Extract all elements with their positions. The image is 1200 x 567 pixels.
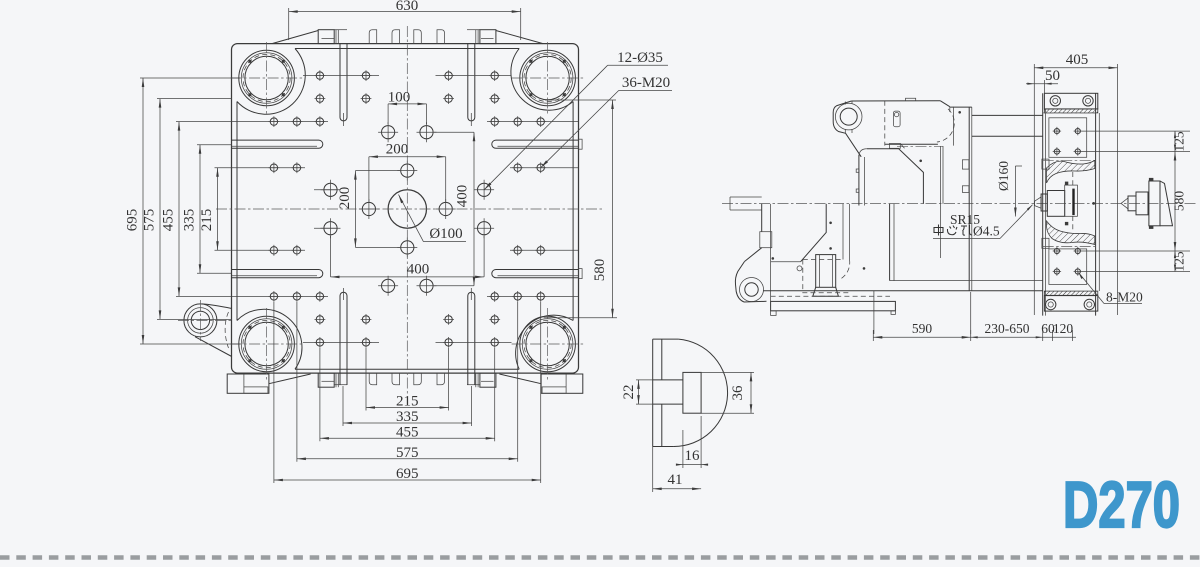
side hole extension stubs (314, 190, 483, 228)
36 M20 tapped holes (269, 70, 547, 348)
label Ø100 with leader (399, 195, 467, 243)
svg-text:335: 335 (396, 409, 419, 425)
svg-text:630: 630 (396, 0, 419, 14)
svg-text:695: 695 (125, 209, 141, 232)
side view machine axis centerline (722, 202, 1196, 205)
left vertical dimensions 695/575/455/335/215 (125, 76, 579, 344)
svg-text:695: 695 (396, 466, 419, 482)
svg-text:41: 41 (668, 472, 683, 488)
tie-bar hole bottom-right (512, 308, 584, 380)
detail dim 41 (653, 447, 701, 493)
model label D270 (1063, 468, 1180, 541)
tie bar upper (side view) (972, 115, 1043, 136)
inner recessed panel outline (237, 49, 577, 370)
label 12-Ø35 with leader (484, 50, 668, 190)
toggle link bars (856, 155, 864, 206)
platen front view outline (232, 44, 579, 374)
svg-text:575: 575 (396, 445, 419, 461)
inner dimension 200 vertical (337, 171, 400, 248)
svg-text:405: 405 (1066, 52, 1089, 68)
svg-text:200: 200 (386, 142, 409, 158)
svg-text:Ø100: Ø100 (429, 226, 462, 242)
svg-text:335: 335 (182, 209, 198, 232)
svg-text:D270: D270 (1063, 468, 1180, 541)
horizontal T-slot bars left (232, 140, 323, 278)
svg-text:580: 580 (592, 259, 608, 282)
svg-text:125: 125 (1172, 251, 1187, 272)
bottom dims 590 / 230-650 / 60 / 120 (873, 291, 1076, 341)
center hole Ø100 (388, 190, 426, 228)
carriage base plate (763, 281, 1043, 316)
12 Ø35 bolt holes (321, 122, 495, 296)
svg-text:455: 455 (396, 424, 419, 440)
platen bolt squares 8-M20 (1049, 118, 1087, 285)
svg-text:400: 400 (407, 262, 430, 278)
detail dim 22 (621, 380, 653, 404)
svg-text:215: 215 (199, 209, 215, 232)
tie-bar hole bottom-left (231, 308, 303, 380)
dims 125 / 580 / 125 right (1082, 131, 1190, 272)
moving platen slab (885, 101, 972, 291)
svg-text:12-Ø35: 12-Ø35 (617, 50, 663, 66)
svg-text:215: 215 (396, 394, 419, 410)
stationary platen side section (1042, 93, 1099, 315)
detail dim 16 (676, 416, 708, 468)
detail dim 36 (701, 372, 754, 413)
ejector housing block (797, 255, 850, 297)
inner dimension 400 horizontal (331, 236, 485, 278)
dim 405 (1034, 52, 1117, 315)
svg-text:455: 455 (161, 209, 177, 232)
bottom dashed separator line (0, 555, 1200, 560)
dim 50 (1026, 68, 1060, 93)
injection nozzle unit (1121, 178, 1173, 229)
inner dimension 200 horizontal (369, 142, 446, 203)
label Ø160 with leader (996, 161, 1022, 217)
svg-text:200: 200 (337, 187, 353, 210)
inner dimension 400 vertical (434, 132, 475, 286)
inner dimension 100 top (388, 90, 427, 125)
top toothed mounting strip (272, 30, 543, 44)
svg-text:400: 400 (455, 185, 471, 208)
tie-bar hole top-right (512, 42, 584, 114)
svg-text:100: 100 (388, 90, 411, 106)
svg-text:Ø4.5: Ø4.5 (973, 224, 1000, 239)
horizontal T-slot bars right (492, 139, 582, 278)
left cylinder tail (730, 197, 762, 210)
lower toggle lug boss (735, 262, 763, 303)
svg-text:590: 590 (912, 321, 933, 336)
svg-text:22: 22 (621, 385, 637, 400)
moving mold half upper section (851, 98, 954, 258)
right dimension 580 (544, 100, 617, 318)
svg-text:8-M20: 8-M20 (1106, 290, 1143, 305)
bottom toothed strip and feet (227, 373, 583, 393)
svg-text:120: 120 (1053, 321, 1074, 336)
tie-bar hole top-left (231, 42, 303, 114)
svg-text:580: 580 (1172, 191, 1187, 212)
platen hatched lobes (1047, 161, 1095, 245)
vertical T-slot bars bottom (340, 288, 475, 385)
vertical T-slot bars top (340, 44, 475, 126)
svg-text:36: 36 (730, 385, 746, 401)
T-slot detail view (653, 339, 728, 446)
svg-text:125: 125 (1172, 131, 1187, 152)
centerlines front view (216, 26, 604, 394)
upper toggle lug boss (833, 101, 862, 157)
svg-text:230-650: 230-650 (985, 321, 1030, 336)
svg-text:50: 50 (1045, 68, 1060, 84)
label 36-M20 with leader (541, 75, 672, 168)
svg-text:575: 575 (142, 209, 158, 232)
top dimension 630 (289, 0, 521, 40)
svg-text:Ø160: Ø160 (996, 161, 1011, 191)
locating ring and sprue bushing (1035, 172, 1078, 232)
svg-text:36-M20: 36-M20 (622, 75, 670, 91)
lower moving assembly outline (744, 204, 865, 302)
label SR15 中心孔Ø4.5 (933, 205, 1033, 239)
left mounting lug with hole (178, 300, 232, 357)
svg-text:16: 16 (685, 448, 701, 464)
label 8-M20 with leader (1079, 273, 1143, 305)
bottom dimensions 215/335/455/575/695 (274, 302, 541, 483)
